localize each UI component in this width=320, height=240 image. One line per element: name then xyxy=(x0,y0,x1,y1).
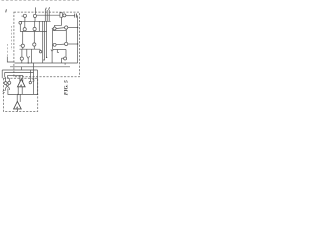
wire drop with hook xyxy=(29,70,31,81)
wire rect top right cell xyxy=(53,30,67,32)
wire left entry corner xyxy=(7,57,14,63)
clock slash b xyxy=(48,7,51,10)
slash tick a xyxy=(33,79,35,80)
op-amp U3 inner mark xyxy=(20,85,21,87)
capacitor plate b xyxy=(76,14,78,18)
wire Q14 to rail xyxy=(68,43,78,45)
wire left stub row2 xyxy=(52,28,53,30)
wire bus link xyxy=(21,67,23,70)
wire Y arm a xyxy=(27,56,28,58)
transistor Q10 xyxy=(63,14,66,17)
transistor Q3 xyxy=(19,21,22,24)
wire rail y31 xyxy=(20,30,47,32)
wire left stub row3 xyxy=(52,44,53,46)
wire U3 out b xyxy=(21,87,23,95)
wire bus y63 xyxy=(15,62,78,64)
node dot Y xyxy=(28,62,29,63)
transistor Q13 xyxy=(53,43,56,46)
wire Q8 down xyxy=(21,60,23,63)
wire bus y72.4 xyxy=(5,71,34,73)
dashed stub wire left margin xyxy=(11,26,13,50)
op-amp U4 inner mark xyxy=(17,107,18,109)
clock slash a xyxy=(44,8,47,11)
transistor Q14 xyxy=(65,42,68,45)
node dot mid bus xyxy=(46,57,47,58)
wire rail y49 xyxy=(20,48,41,50)
transistor Q15 xyxy=(64,57,67,60)
wire slashed drop xyxy=(33,63,35,94)
wire hook down xyxy=(39,49,41,50)
wire top link to right cell xyxy=(37,14,60,16)
transistor Q18b hook xyxy=(29,81,31,83)
wire Y2 arm a xyxy=(51,50,52,52)
wire stub above Q2 xyxy=(34,7,36,14)
capacitor plate a xyxy=(74,14,76,18)
wire Q12 down xyxy=(65,29,67,42)
wire bus y72.4 drop xyxy=(4,72,7,81)
wire bus y75.4 drop xyxy=(8,75,10,81)
transistor Q11 xyxy=(53,27,56,30)
wire right cell left rail xyxy=(52,29,54,50)
wire drop right of wire y21 xyxy=(38,21,40,31)
wire U4 in right xyxy=(19,94,21,102)
wire link row y94 xyxy=(16,93,37,95)
wire clock entry 3 xyxy=(48,10,50,21)
wire bus y70 corner left xyxy=(1,70,3,78)
slash tick b xyxy=(33,81,35,82)
wire mid bus 2 xyxy=(43,21,45,60)
wire Y left drop xyxy=(26,49,28,56)
wire U4 out xyxy=(16,109,18,112)
wire top rail y21 xyxy=(20,20,51,22)
wire Y down xyxy=(27,59,29,64)
wire U3 in right xyxy=(22,75,24,81)
wire Q7 down xyxy=(33,46,35,49)
wire U4 in left xyxy=(16,94,18,102)
node dot rail lower xyxy=(77,43,78,44)
wire cap right xyxy=(77,15,78,17)
wire Y arm b xyxy=(28,56,29,58)
wire right rail xyxy=(77,16,79,63)
dashed box U2 output block xyxy=(3,78,37,111)
tick mark top-left lead label xyxy=(5,9,8,12)
wire Y right drop xyxy=(31,49,33,63)
transistor Q2 xyxy=(33,14,36,17)
transistor Q1 xyxy=(23,14,26,17)
transistor Q8 xyxy=(20,57,23,60)
wire Q12 to rail xyxy=(68,27,78,29)
wire U3 out a xyxy=(17,87,19,95)
wire bus y66.8 xyxy=(10,66,70,68)
faint page edge top xyxy=(2,0,81,2)
node dot rail xyxy=(77,27,78,28)
transistor Q17 cross pair right xyxy=(8,81,11,84)
wire Q1 left stub xyxy=(22,15,24,17)
wire Q7 feed xyxy=(33,31,35,43)
wire cross b xyxy=(6,84,10,88)
wire Y2 arm b xyxy=(52,50,53,52)
wire Q6 feed xyxy=(22,31,24,44)
wire Q5 up xyxy=(34,21,36,27)
transistor Q7 xyxy=(33,43,36,46)
wire Q2 down xyxy=(34,18,36,22)
component box B1 top right xyxy=(60,13,63,17)
transistor Q5 xyxy=(33,27,36,30)
op-amp U4 xyxy=(14,101,22,109)
wire Q1 down xyxy=(24,17,26,21)
wire Y2 down xyxy=(51,51,53,63)
tick below bus xyxy=(64,63,66,65)
wire cross a xyxy=(6,85,10,88)
op-amp U3 xyxy=(18,79,26,87)
dashed stub wire left margin lower xyxy=(6,44,8,57)
wire cap left xyxy=(66,15,75,17)
wire mid bus 1 xyxy=(42,21,44,63)
dashed box U1 main charge-pump block xyxy=(14,12,80,77)
transistor Q9 small xyxy=(39,51,41,53)
transistor Q4 xyxy=(23,28,26,31)
wire Q15 stub xyxy=(62,57,64,59)
wire bus y70 xyxy=(2,69,37,71)
wire Q13-Q14 xyxy=(56,43,65,46)
wire corner small xyxy=(57,50,59,53)
transistor Q12 xyxy=(65,26,68,29)
wire U3 in left xyxy=(19,75,21,81)
wire Q3 down xyxy=(19,24,21,31)
slash tick d xyxy=(3,92,5,93)
wire clock entry 1 xyxy=(44,10,46,21)
wire mid bus 3 xyxy=(46,21,48,57)
node dot link right xyxy=(37,94,38,95)
wire cross right down xyxy=(8,88,10,90)
wire Q6 left stub xyxy=(20,45,22,47)
wire rail y49 right xyxy=(53,49,66,51)
wire Q6 down xyxy=(22,47,24,49)
wire cross left down xyxy=(5,88,7,91)
wire Q15 feed xyxy=(65,50,67,57)
wire B1 down xyxy=(55,17,62,27)
transistor Q16 cross pair left xyxy=(4,82,7,85)
wire cross to link corner xyxy=(8,89,16,95)
wire Q4 up xyxy=(24,21,26,27)
svg-text:FIG. 5: FIG. 5 xyxy=(63,80,69,95)
slash tick c xyxy=(3,90,5,91)
transistor Q6 xyxy=(21,44,24,47)
wire Q11-Q12 xyxy=(56,27,65,30)
wire Q15 stub down xyxy=(61,58,63,63)
wire bus y75.4 xyxy=(8,74,23,76)
wire Q8 feed xyxy=(21,49,23,57)
wire bus y70 corner right xyxy=(37,70,39,94)
wire clock entry 2 xyxy=(46,10,48,21)
node dot out a xyxy=(18,94,19,95)
